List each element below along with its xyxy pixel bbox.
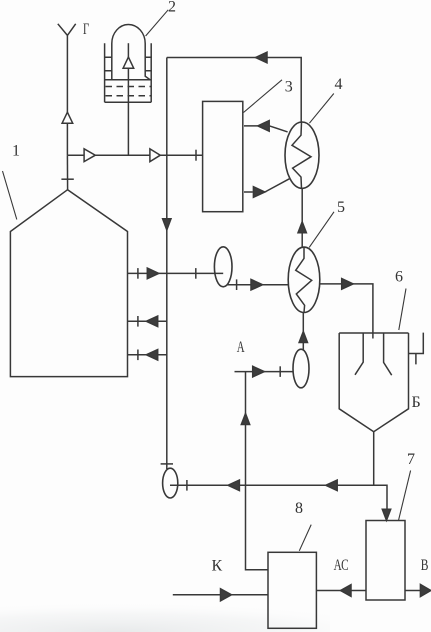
separator 6 internals: [355, 333, 392, 375]
exchanger 5 coil: [296, 247, 312, 312]
arrow up on riser: [241, 414, 249, 425]
svg-text:2: 2: [168, 0, 176, 16]
label 7 with leader: [399, 471, 411, 521]
recycle pipe: [170, 485, 387, 509]
pipe into tank 1: [66, 155, 68, 190]
tick on outlet: [137, 268, 139, 279]
pump P1 outlet pipe: [228, 284, 289, 286]
svg-text:5: 5: [337, 199, 345, 216]
arrow right on outlet: [147, 268, 159, 279]
arrow left on recycle pipe: [228, 480, 240, 491]
label 5 with leader: [309, 212, 334, 248]
arrow on return pipe: [256, 52, 268, 63]
tick before column 3: [195, 150, 197, 161]
riser pipe left: [166, 58, 168, 470]
valve 2 on main pipe: [150, 149, 160, 162]
separator 6: [339, 333, 408, 432]
return pipe top: [167, 58, 301, 123]
pipe column 3 to exchanger 4 bottom: [244, 179, 289, 192]
drum 2 wall ticks: [104, 57, 152, 71]
svg-text:АС: АС: [334, 556, 349, 573]
svg-text:6: 6: [395, 269, 403, 286]
valve on flare line: [62, 112, 73, 123]
tick on outlet right: [195, 268, 197, 279]
tank 1: [10, 190, 127, 377]
main top pipe: [67, 154, 202, 156]
scan smudge bottom left: [0, 598, 330, 632]
pipe exchanger 4 to column 3 top: [244, 126, 288, 132]
arrow down into unit 7: [382, 509, 390, 520]
heat exchanger 5: [288, 247, 320, 312]
column 3: [203, 101, 243, 211]
svg-text:7: 7: [407, 451, 415, 468]
unit 7: [366, 521, 405, 601]
stream AC pipe: [316, 590, 366, 592]
label 2 with leader: [146, 10, 169, 36]
drum 2 internal pipe: [127, 43, 129, 155]
exchanger 4 coil: [292, 122, 311, 188]
tick above pump: [161, 463, 173, 465]
tank 1 outlet pipe: [128, 272, 224, 274]
tick above tank 1 peak: [61, 178, 73, 180]
pump P2 (stream A): [293, 349, 309, 388]
pipe exchanger 5 to separator 6: [320, 284, 373, 339]
separator 6 side pipe: [409, 333, 424, 365]
pump P3: [163, 468, 178, 498]
svg-text:К: К: [212, 558, 223, 575]
svg-text:1: 1: [12, 143, 20, 160]
pump P1: [214, 247, 232, 287]
separator 6 bottom pipe: [373, 432, 375, 486]
stream A pipe: [235, 371, 294, 373]
label 3 with leader: [244, 80, 283, 113]
heat exchanger 4: [285, 122, 319, 188]
drum 2 internal arrow: [123, 57, 134, 68]
tank 1 inlet pipe lower: [128, 354, 167, 356]
stream K pipe: [173, 594, 268, 596]
drum 2 shell: [105, 25, 152, 103]
label 8 with leader: [299, 525, 311, 551]
svg-text:А: А: [237, 338, 245, 356]
label 1 with leader: [3, 171, 17, 220]
pipe exchanger 4 to exchanger 5: [301, 188, 303, 247]
svg-text:4: 4: [335, 76, 343, 93]
svg-text:8: 8: [295, 500, 303, 517]
pipe exchanger 5 bottom to pump A: [302, 313, 304, 351]
label 6 with leader: [399, 289, 406, 331]
svg-text:В: В: [421, 557, 429, 574]
drum 2 liquid lines: [105, 79, 152, 81]
unit 8: [268, 552, 316, 628]
svg-text:3: 3: [285, 79, 293, 96]
label 4 with leader: [309, 94, 333, 124]
svg-text:Г: Г: [83, 20, 89, 38]
svg-text:Б: Б: [412, 394, 421, 411]
valve 1 on main pipe: [84, 149, 95, 162]
stream B pipe: [405, 590, 431, 592]
flare stack: [58, 24, 76, 155]
tank 1 inlet pipe upper: [128, 320, 167, 322]
riser from unit 8 to stream A: [246, 372, 269, 570]
arrow down on riser: [163, 219, 171, 230]
arrow left on recycle pipe 2: [326, 480, 338, 491]
